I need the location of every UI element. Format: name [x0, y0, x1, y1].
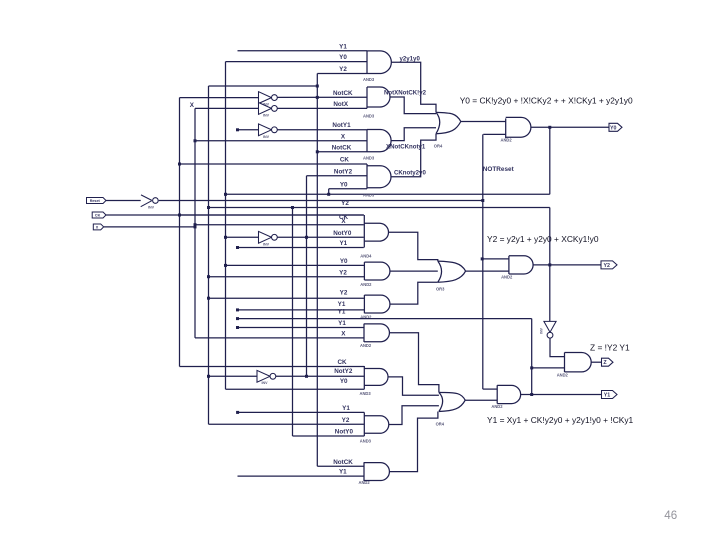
wire NOTReset net (inverter output to right column): [159, 200, 483, 202]
svg-text:Y2 = y2y1 + y2y0 + XCKy1!y0: Y2 = y2y1 + y2y0 + XCKy1!y0: [487, 234, 599, 244]
wire D1 output to Y0 tag: [531, 126, 609, 128]
wire NotY0 input of C3: [293, 435, 365, 437]
wire A2 output to OR4 U1: [390, 97, 436, 114]
svg-text:NotXNotCK!y2: NotXNotCK!y2: [384, 89, 427, 96]
wire NotX/NotY0 bus vertical: [306, 176, 308, 377]
wire INV3 input (X): [195, 107, 259, 109]
and-gate D3 AND2 (Y1 out): [497, 385, 520, 403]
and-gate C2 AND3: [364, 366, 388, 389]
svg-text:INV: INV: [263, 135, 270, 139]
svg-text:CK: CK: [95, 214, 101, 218]
wire C1 output to OR4 U3: [390, 333, 439, 393]
svg-text:Z = !Y2 Y1: Z = !Y2 Y1: [590, 343, 630, 353]
svg-text:46: 46: [664, 509, 677, 522]
wire Reset tag to inverter: [106, 200, 141, 202]
svg-text:Y1: Y1: [339, 469, 347, 476]
output port tag Y1: [602, 391, 618, 399]
svg-text:Y1: Y1: [342, 405, 350, 412]
svg-text:INV: INV: [148, 206, 155, 210]
node Y1-C3 dot: [236, 411, 239, 414]
inverter INV2: [259, 92, 272, 104]
svg-text:NotY2: NotY2: [334, 368, 353, 375]
svg-text:Y0: Y0: [340, 181, 348, 188]
node NotCK junction: [316, 96, 319, 99]
wire B3 output to OR3: [390, 282, 438, 304]
wire D3 output to Y1 tag: [521, 394, 602, 396]
wire U1 output to D1: [461, 121, 506, 123]
svg-text:AND2: AND2: [359, 480, 371, 485]
wire E1 output to Z tag: [591, 361, 601, 363]
svg-text:OR3: OR3: [436, 287, 445, 292]
svg-text:AND2: AND2: [501, 138, 513, 143]
node NOTReset-D2 junction: [481, 257, 484, 260]
svg-text:OR4: OR4: [436, 422, 445, 427]
svg-text:Y2: Y2: [341, 200, 349, 207]
output port tag Y0: [609, 123, 622, 131]
wire NotCK bus vertical: [316, 74, 318, 467]
wire Y1 input of C1: [238, 327, 365, 329]
wire NOTReset to D3: [483, 388, 497, 390]
wire U3 output to D3: [465, 399, 497, 401]
wire Y0 input of A4: [329, 188, 367, 190]
node y1 feedback dot: [236, 317, 239, 320]
wire X input of C1: [195, 337, 364, 339]
wire B2 output to OR3: [390, 270, 438, 272]
node INV6 input junction: [207, 375, 210, 378]
wire Y1 input of C4: [238, 475, 365, 477]
svg-text:NotCK: NotCK: [332, 144, 352, 151]
wire y2 feedback horizontal: [209, 207, 550, 209]
wire y1 feedback horizontal: [238, 318, 532, 320]
wire CK input of A4: [180, 163, 368, 165]
svg-text:NotY2: NotY2: [334, 168, 353, 175]
node INV4 input dot: [236, 128, 239, 131]
svg-text:Y0: Y0: [339, 54, 347, 61]
and-gate D1 AND2 (Y0 out): [506, 117, 531, 138]
svg-text:Y1: Y1: [339, 240, 347, 247]
node CK-A4 junction: [178, 163, 181, 166]
wire A3 output to OR4 U1: [391, 128, 436, 141]
wire NOTReset to D1: [483, 133, 505, 135]
svg-text:X: X: [341, 331, 346, 338]
node X-B1 junction: [194, 223, 197, 226]
node Y2-B3 junction: [207, 297, 210, 300]
svg-text:Y2: Y2: [342, 417, 350, 424]
wire INV5 input stub: [226, 236, 259, 238]
svg-text:Y1: Y1: [338, 301, 346, 308]
node y0 feedback dot: [224, 193, 227, 196]
wire B1 output to OR3: [389, 232, 438, 261]
and-gate B1 AND4: [364, 215, 388, 248]
wire CK bus vertical: [179, 98, 181, 367]
node Y1-C1 dot: [236, 326, 239, 329]
wire NotCK input of C4: [317, 465, 364, 467]
svg-text:X: X: [190, 102, 195, 109]
and-gate A2 AND3: [367, 87, 390, 108]
svg-text:AND3: AND3: [363, 114, 375, 119]
wire Y1 input of B3: [238, 309, 365, 311]
wire CK tag to AND4 B1: [106, 214, 364, 216]
or-gate U2 OR3: [438, 261, 466, 282]
svg-text:INV: INV: [263, 114, 270, 118]
and-gate E1 AND2 (Z out): [565, 353, 592, 373]
svg-text:AND2: AND2: [360, 343, 372, 348]
output port tag Z: [602, 358, 614, 366]
wire y86 crossover: [209, 85, 318, 87]
svg-text:Y2: Y2: [339, 269, 347, 276]
wire Y1 branch to Z gate: [532, 367, 565, 369]
wire NotCK input of A3: [317, 151, 367, 153]
svg-text:AND2: AND2: [501, 274, 513, 279]
inverter INV3: [259, 103, 272, 115]
svg-text:INV: INV: [262, 381, 269, 385]
and-gate D2 AND2 (Y2 out): [509, 256, 533, 274]
node Y1-B3 dot: [236, 308, 239, 311]
node Y1 output junction: [530, 393, 533, 396]
svg-text:AND4: AND4: [360, 253, 372, 258]
inverter INV6: [257, 370, 270, 382]
svg-text:Reset: Reset: [90, 199, 101, 203]
inverter INV7 (down): [544, 321, 556, 332]
wire Y0 input of B2: [226, 264, 365, 266]
svg-text:Y0: Y0: [340, 258, 348, 265]
node NOTReset junction: [481, 199, 484, 202]
svg-text:NotY1: NotY1: [332, 122, 351, 129]
svg-text:AND2: AND2: [491, 404, 503, 409]
wire CK input of B1: [180, 214, 364, 216]
and-gate C3 AND3: [364, 412, 388, 436]
node Y0 output junction: [548, 126, 551, 129]
wire X tag to X bus: [104, 226, 195, 228]
wire Y1 input of A1: [238, 50, 368, 52]
svg-text:NOTReset: NOTReset: [483, 166, 515, 173]
node Y1-Z junction: [530, 366, 533, 369]
svg-text:Y0: Y0: [610, 125, 617, 131]
wire INV2 input (CK): [180, 97, 259, 99]
svg-text:CK: CK: [337, 359, 347, 366]
wire y0 feedback vertical: [549, 127, 551, 194]
svg-text:AND3: AND3: [363, 77, 375, 82]
svg-text:Y1: Y1: [338, 309, 346, 316]
wire NotY2 input of A4: [307, 175, 368, 177]
svg-text:NotY0: NotY0: [335, 429, 354, 436]
svg-text:CKnoty2y0: CKnoty2y0: [394, 170, 426, 177]
or-gate U3 OR4: [439, 392, 465, 411]
svg-text:AND3: AND3: [363, 192, 375, 197]
wire y0 bus vertical: [225, 62, 227, 390]
input port tag CK: [92, 212, 106, 218]
svg-text:NotY0: NotY0: [333, 230, 352, 237]
wire INV6 input: [209, 375, 258, 377]
node y2 bus tap junction: [291, 206, 294, 209]
svg-text:NotX: NotX: [333, 101, 348, 108]
wire NOTReset to D2: [482, 258, 509, 260]
wire A1 output to OR4 U1: [391, 62, 436, 112]
input port tag Reset: [87, 198, 107, 204]
svg-text:Y2: Y2: [340, 289, 348, 296]
wire NotY0 input of B1: [277, 236, 363, 238]
node NotY2-C2 junction: [305, 375, 308, 378]
or-gate U1 OR4: [436, 112, 461, 133]
wire INV2 output (NotCK): [277, 96, 367, 98]
wire Y1 input of C3: [238, 411, 365, 413]
wire Y2 input of B3: [209, 297, 365, 299]
and-gate A4 AND3: [367, 164, 391, 189]
node X bus junction: [194, 225, 197, 228]
inverter INV1 (Reset): [141, 195, 152, 207]
wire y0 feedback horizontal: [226, 193, 550, 195]
svg-text:NotCK: NotCK: [333, 90, 353, 97]
wire CK input of C2: [180, 366, 365, 368]
svg-text:Y1: Y1: [338, 320, 346, 327]
svg-text:AND2: AND2: [360, 282, 372, 287]
wire INV3 output (NotX): [277, 107, 367, 109]
and-gate B2 AND2: [364, 262, 390, 280]
svg-text:NotCK: NotCK: [333, 459, 353, 466]
node CK bus junction: [178, 214, 181, 217]
wire X bus vertical: [194, 108, 196, 338]
wire NOTReset vertical: [482, 134, 484, 389]
node NotY0 junction: [305, 236, 308, 239]
svg-text:Y0: Y0: [340, 378, 348, 385]
svg-text:AND2: AND2: [557, 373, 569, 378]
node Y0-B2 junction: [224, 264, 227, 267]
and-gate C1 AND2: [364, 324, 389, 342]
node INV5 input dot: [224, 236, 227, 239]
node Y2 output junction: [548, 263, 551, 266]
node NotCK-A3 junction: [316, 150, 319, 153]
node Y1-B1 dot: [236, 246, 239, 249]
wire C3 output to OR4 U3: [389, 406, 439, 425]
wire y2 bus vertical: [208, 86, 210, 424]
and-gate B3 AND2: [364, 295, 390, 313]
wire A4 output to OR4 U1: [391, 134, 436, 177]
svg-text:AND3: AND3: [363, 155, 375, 160]
wire Y2 input of B2: [209, 276, 365, 278]
wire NotY2 input of C2: [276, 375, 364, 377]
and-gate C4 AND2: [364, 462, 389, 481]
svg-text:CK: CK: [340, 157, 350, 164]
svg-text:Y2: Y2: [339, 66, 347, 73]
wire Y0 input of A1: [226, 61, 368, 63]
inverter INV5: [259, 231, 272, 243]
svg-text:INV: INV: [263, 243, 270, 247]
wire D2 output to Y2 tag: [533, 264, 601, 266]
input port tag X: [93, 224, 103, 230]
wire X input of B1: [195, 224, 364, 226]
and-gate A3 AND3: [367, 130, 391, 152]
wire C4 output to OR4 U3: [390, 412, 438, 472]
wire C2 output to OR4 U3: [388, 377, 439, 395]
svg-text:Y1: Y1: [339, 43, 347, 50]
svg-text:AND3: AND3: [360, 391, 372, 396]
svg-text:OR4: OR4: [434, 144, 443, 149]
svg-text:AND3: AND3: [360, 438, 372, 443]
wire U2 output to D2: [466, 270, 509, 272]
svg-text:X: X: [341, 133, 346, 140]
node Y2-B2 junction: [207, 275, 210, 278]
wire X input of A3: [195, 140, 367, 142]
wire Y2 input of A1: [317, 73, 367, 75]
svg-text:INV: INV: [540, 327, 544, 333]
node X-A3 junction: [194, 139, 197, 142]
wire Y1 input of B1: [238, 247, 364, 249]
inverter INV4: [259, 124, 272, 136]
node y2 feedback junction: [207, 206, 210, 209]
wire INV7 output to Z gate: [550, 338, 565, 357]
and-gate A1 AND3: [367, 51, 391, 74]
wire y2 feedback vertical: [549, 208, 551, 322]
node y0-A4 jog junction: [327, 193, 330, 196]
svg-text:Y1 = Xy1 + CK!y2y0 + y2y1!y0: Y1 = Xy1 + CK!y2y0 + y2y1!y0 + !CKy1: [487, 415, 634, 425]
wire y0-A4 jog vertical: [328, 189, 330, 195]
node junction y86: [316, 85, 319, 88]
wire y2 bus vertical mid: [292, 208, 294, 437]
wire INV4 input stub: [238, 129, 259, 131]
svg-text:XNotCKnoty1: XNotCKnoty1: [386, 144, 426, 151]
svg-text:Y1: Y1: [604, 393, 611, 399]
svg-text:Y0 = CK!y2y0 + !X!CKy2 + + X!: Y0 = CK!y2y0 + !X!CKy2 + + X!CKy1 + y2y1…: [460, 96, 633, 106]
wire Y0 input of C2: [226, 388, 365, 390]
wire y1 feedback vertical: [531, 319, 533, 395]
wire NotY1 input of A3: [277, 129, 367, 131]
svg-text:Y2: Y2: [604, 263, 611, 269]
output port tag Y2: [601, 261, 617, 269]
wire Y2 input of C3: [209, 423, 365, 425]
